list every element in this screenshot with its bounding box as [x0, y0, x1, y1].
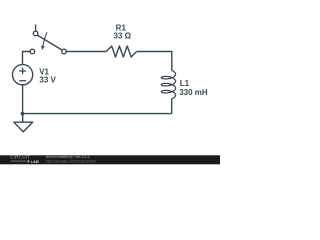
svg-text:330 mH: 330 mH: [179, 88, 208, 97]
voltage source V1: [13, 65, 33, 85]
switch SW1 actuation arrow: [43, 32, 47, 46]
watermark bar: [0, 155, 220, 164]
svg-text:http://circuitlab.com/c/5c3o2P: http://circuitlab.com/c/5c3o2P0y0x: [46, 160, 96, 164]
svg-text:LAB: LAB: [31, 159, 39, 164]
switch SW1 right terminal: [62, 49, 67, 54]
V1 plus sign: [19, 70, 26, 72]
switch SW1 top throw terminal: [33, 31, 38, 36]
resistor R1: [106, 46, 136, 57]
svg-text:33 Ω: 33 Ω: [114, 31, 132, 40]
svg-text:demonstrationjl / lab 4.2.1: demonstrationjl / lab 4.2.1: [46, 155, 90, 159]
inductor L1: [161, 71, 175, 99]
wire R1 to top-right corner: [137, 52, 172, 71]
switch SW1 left terminal: [30, 49, 35, 54]
switch SW1 blade: [37, 35, 62, 50]
svg-text:L1: L1: [180, 79, 190, 88]
V1 minus sign: [19, 80, 26, 82]
wire switch left terminal to V1 top: [23, 52, 31, 65]
bottom rail wire: [23, 113, 172, 115]
wire V1 bottom to ground node: [22, 85, 24, 114]
switch SW1 top throw stub: [35, 25, 37, 32]
svg-text:CIRCUIT: CIRCUIT: [10, 155, 30, 160]
wire switch right terminal to R1: [66, 51, 106, 53]
node junction dot: [21, 112, 25, 116]
CircuitLab logo: rule + LAB: [11, 160, 27, 163]
svg-text:33 V: 33 V: [39, 76, 56, 85]
ground symbol: [22, 114, 24, 123]
wire L1 bottom to bottom rail: [171, 99, 173, 114]
